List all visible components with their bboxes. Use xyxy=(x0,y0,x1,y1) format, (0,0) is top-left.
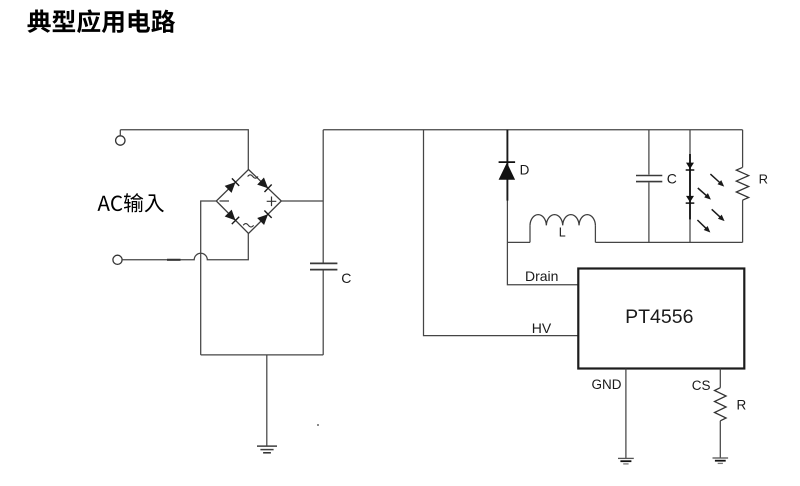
wire top rail down to plus node xyxy=(322,130,324,201)
LED string branch xyxy=(689,130,691,243)
wire AC bottom with hop over left return xyxy=(122,234,248,260)
svg-text:D: D xyxy=(520,163,530,178)
resistor R load xyxy=(736,130,748,243)
wire diode branch / drain node xyxy=(507,200,578,284)
LED light arrow 2 xyxy=(696,186,713,202)
bridge AC mark top ~ xyxy=(248,175,258,178)
stray dot xyxy=(317,424,319,426)
LED D6 xyxy=(686,196,695,203)
svg-text:L: L xyxy=(559,225,566,239)
bridge plus mark xyxy=(267,197,277,207)
label AC输入 xyxy=(97,193,163,212)
LED D5 xyxy=(686,163,695,170)
bridge minus mark xyxy=(220,200,230,202)
capacitor C output xyxy=(636,130,662,243)
capacitor C input xyxy=(310,201,337,355)
IC U1 PT4556 xyxy=(578,269,744,369)
wire top rail xyxy=(323,129,742,131)
bridge diode D4 (bottom to right) xyxy=(257,211,272,226)
wire CS pin xyxy=(719,369,721,388)
svg-text:CS: CS xyxy=(692,378,711,393)
resistor R sense xyxy=(715,388,727,421)
bridge diode D3 (left to bottom) xyxy=(224,209,239,224)
bridge rectifier diamond xyxy=(216,170,281,234)
bridge AC mark bottom ~ xyxy=(243,224,253,227)
bridge diode D2 (top to right) xyxy=(257,177,272,192)
wire bridge left to return rail xyxy=(201,201,217,355)
terminal AC input bottom xyxy=(113,255,122,264)
ground CS xyxy=(713,458,729,463)
LED light arrow 3 xyxy=(710,207,727,223)
ground primary xyxy=(257,355,277,453)
svg-text:PT4556: PT4556 xyxy=(625,306,693,328)
wire GND pin xyxy=(625,369,627,459)
svg-text:GND: GND xyxy=(592,377,622,392)
title 典型应用电路 xyxy=(28,9,176,33)
terminal AC input top xyxy=(116,130,125,145)
svg-text:R: R xyxy=(759,171,768,186)
wire R sense to ground xyxy=(719,421,721,458)
svg-text:R: R xyxy=(737,397,747,412)
wire AC top to bridge top xyxy=(120,130,248,170)
diode D stem thick xyxy=(506,130,508,201)
wire bridge plus output to C node xyxy=(281,200,323,202)
svg-text:Drain: Drain xyxy=(525,268,558,284)
LED light arrow 1 xyxy=(709,172,727,189)
ground GND pin xyxy=(618,458,634,464)
LED light arrow 4 xyxy=(695,218,712,235)
bridge diode D1 (left to top) xyxy=(224,178,239,193)
svg-text:C: C xyxy=(341,270,351,286)
wire drain rail to inductor xyxy=(507,241,530,243)
wire output bottom rail xyxy=(595,241,742,243)
svg-text:HV: HV xyxy=(532,320,552,336)
wire HV branch xyxy=(424,130,579,336)
fuse dash on AC bottom wire xyxy=(167,259,181,261)
inductor L xyxy=(530,215,595,243)
diode D xyxy=(499,162,515,180)
svg-text:C: C xyxy=(667,170,677,186)
wire return rail bottom xyxy=(201,354,324,356)
